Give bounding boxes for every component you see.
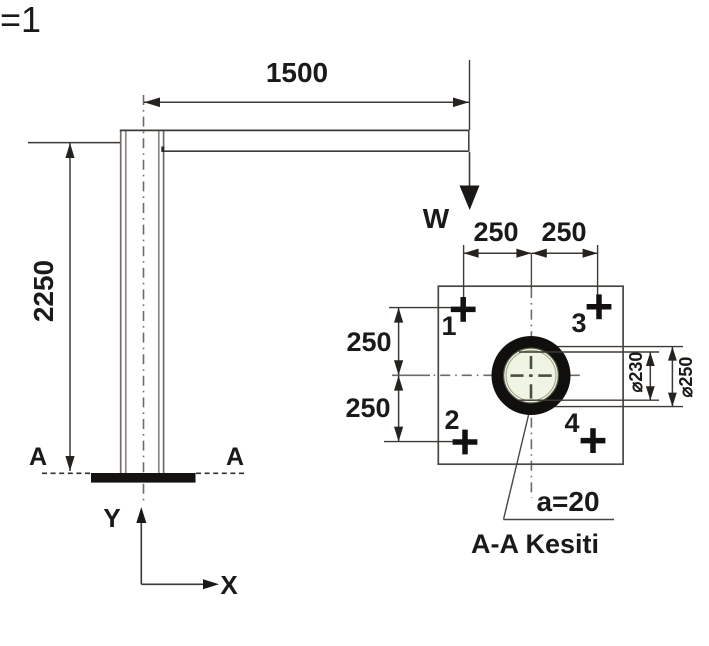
axis Y	[103, 503, 146, 584]
svg-text:=1: =1	[0, 0, 41, 40]
arm right end	[468, 130, 470, 151]
bolt 4 label	[564, 408, 579, 438]
force W arrow	[423, 152, 480, 234]
dimension 250 left-lower	[345, 376, 472, 442]
svg-text:3: 3	[571, 308, 586, 338]
column centerline	[143, 95, 145, 503]
bolt 3	[587, 294, 612, 319]
bolt 2 label	[444, 405, 459, 435]
svg-text:250: 250	[346, 327, 391, 357]
weld leader line	[504, 411, 615, 520]
svg-text:W: W	[423, 203, 450, 234]
svg-text:A-A Kesiti: A-A Kesiti	[471, 529, 599, 559]
bolt 1 label	[441, 311, 456, 341]
label =1	[0, 0, 41, 40]
svg-text:⌀250: ⌀250	[676, 357, 696, 398]
dimension 250 top-right	[532, 217, 598, 301]
bolt 4	[581, 428, 606, 453]
svg-text:250: 250	[473, 217, 518, 247]
caption A-A Kesiti	[471, 529, 599, 559]
svg-text:X: X	[220, 570, 238, 600]
label A left	[29, 443, 47, 471]
ext lines dia250	[535, 347, 683, 407]
dimension 250 left-upper	[346, 308, 472, 376]
bolt 1	[451, 297, 476, 322]
svg-text:4: 4	[564, 408, 579, 438]
arm root tick	[161, 147, 164, 153]
dimension dia250	[668, 347, 696, 407]
svg-text:2: 2	[444, 405, 459, 435]
svg-text:Y: Y	[103, 503, 120, 533]
axis X	[141, 570, 238, 600]
dimension 1500	[144, 57, 470, 130]
label A right	[226, 443, 244, 471]
svg-text:A: A	[226, 443, 244, 471]
bolt 3 label	[571, 308, 586, 338]
bolt 2	[453, 430, 478, 455]
weld size label a=20	[536, 486, 599, 517]
plate outline	[438, 286, 623, 464]
tube crosshair	[511, 356, 552, 399]
svg-text:250: 250	[541, 217, 586, 247]
svg-text:a=20: a=20	[536, 486, 599, 517]
svg-text:250: 250	[345, 393, 390, 423]
column right wall	[159, 130, 164, 474]
ext lines dia230	[519, 352, 659, 400]
section line A-A	[42, 472, 246, 474]
arm top edge	[120, 129, 469, 131]
column left wall	[121, 130, 126, 474]
plate horizontal centerline	[392, 374, 580, 376]
arm bottom edge	[163, 150, 469, 152]
weld ring	[492, 336, 571, 415]
plate vertical centerline	[530, 253, 532, 498]
svg-text:1500: 1500	[266, 57, 328, 88]
svg-text:1: 1	[441, 311, 456, 341]
base plate	[91, 473, 196, 483]
svg-text:2250: 2250	[28, 260, 59, 322]
svg-text:A: A	[29, 443, 47, 471]
dimension 2250	[28, 143, 120, 471]
dimension 250 top-left	[464, 217, 532, 301]
svg-text:⌀230: ⌀230	[626, 352, 646, 393]
dimension dia230	[626, 352, 655, 401]
